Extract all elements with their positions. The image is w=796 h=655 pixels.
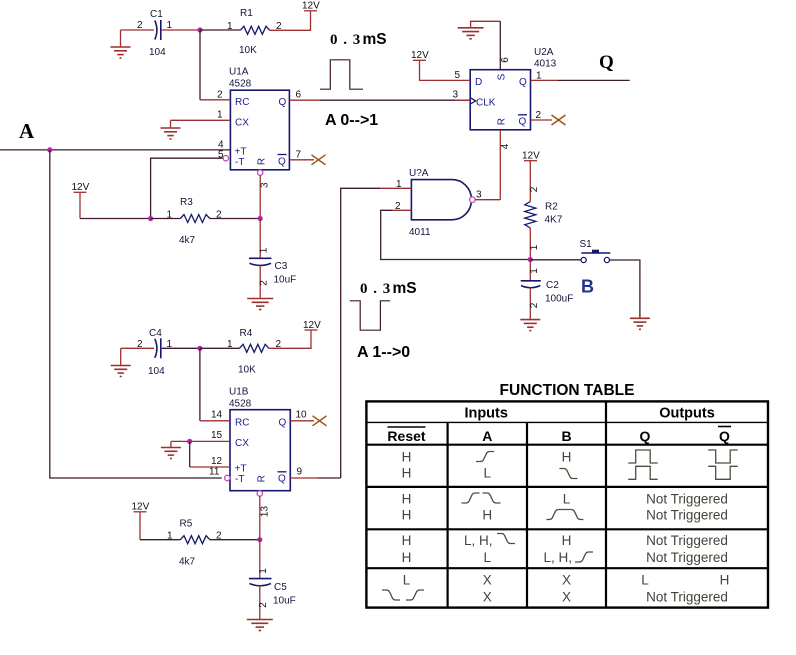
wire <box>189 441 191 467</box>
svg-text:7: 7 <box>296 150 302 161</box>
svg-text:4K7: 4K7 <box>545 215 563 226</box>
wire S1 to ground <box>610 260 640 318</box>
svg-text:X: X <box>562 573 571 588</box>
svg-text:H: H <box>402 550 412 565</box>
pin 13 (R bottom) <box>257 491 270 540</box>
svg-text:6: 6 <box>296 90 302 101</box>
svg-text:1: 1 <box>529 244 540 250</box>
svg-text:Inputs: Inputs <box>464 406 508 422</box>
svg-text:X: X <box>483 573 492 588</box>
resistor R2 4K7 <box>525 186 563 259</box>
svg-text:Q: Q <box>279 418 287 429</box>
node junction C1/R1 <box>197 27 202 32</box>
pin 3 (NAND out) to U2A R <box>475 190 500 201</box>
svg-text:H: H <box>720 573 730 588</box>
svg-text:X: X <box>562 590 571 605</box>
wire net B <box>530 259 581 261</box>
svg-text:Not Triggered: Not Triggered <box>646 491 728 506</box>
ground (U2A S pin 6) <box>458 21 501 39</box>
svg-text:R1: R1 <box>240 8 253 19</box>
svg-text:10: 10 <box>296 410 308 421</box>
svg-text:H: H <box>402 508 412 523</box>
svg-text:1: 1 <box>227 339 233 350</box>
svg-text:10uF: 10uF <box>274 275 297 286</box>
svg-text:H: H <box>402 466 412 481</box>
svg-text:3: 3 <box>476 190 482 201</box>
wire <box>210 218 260 220</box>
svg-text:12V: 12V <box>522 151 540 162</box>
pin 1 (NAND in) <box>380 179 411 190</box>
svg-text:H: H <box>482 508 492 523</box>
pin 2 (Qbar) no-connect <box>531 110 566 125</box>
svg-text:C2: C2 <box>546 280 559 291</box>
svg-text:Q: Q <box>278 157 286 168</box>
capacitor C3 10uF <box>249 219 296 299</box>
svg-text:1: 1 <box>258 568 269 574</box>
svg-text:U1A: U1A <box>229 67 249 78</box>
pin 7 (Qbar) no-connect <box>289 150 325 165</box>
svg-text:Not Triggered: Not Triggered <box>646 508 728 523</box>
svg-text:CX: CX <box>235 438 249 449</box>
wire <box>80 218 151 220</box>
svg-text:5: 5 <box>455 70 461 81</box>
svg-text:11: 11 <box>209 467 220 478</box>
wire Q output <box>558 79 630 81</box>
svg-text:A: A <box>482 428 492 444</box>
table row 4a: L X X L H <box>403 573 730 588</box>
svg-text:H: H <box>402 491 412 506</box>
wire (junction to RC pin 14) <box>199 348 201 421</box>
pin 10 (Q) no-connect <box>290 410 326 426</box>
svg-text:C4: C4 <box>149 328 162 339</box>
power 12V (R4) <box>303 320 321 331</box>
power 12V (R1) <box>302 1 320 12</box>
svg-text:L: L <box>484 550 492 565</box>
svg-text:D: D <box>475 77 482 88</box>
table row 2a: H rise-fall L NotTriggered <box>402 491 728 506</box>
node junction R3.1 / -T <box>148 216 153 221</box>
svg-text:12V: 12V <box>132 502 150 513</box>
waveform pulse A 1->0 <box>350 301 390 330</box>
wire <box>162 347 200 349</box>
svg-text:1: 1 <box>167 531 173 542</box>
power 12V (R3) <box>72 182 90 219</box>
wire <box>269 331 311 349</box>
svg-text:RC: RC <box>235 97 249 108</box>
svg-text:1: 1 <box>259 247 270 253</box>
svg-text:R2: R2 <box>545 202 558 213</box>
svg-text:R: R <box>257 475 268 482</box>
capacitor C2 100uF <box>521 260 574 320</box>
svg-text:2: 2 <box>529 302 540 308</box>
pin 5 (-T) <box>151 150 229 219</box>
svg-text:1: 1 <box>536 71 542 82</box>
table row 3b: H L L,H,rise NotTriggered <box>402 550 728 565</box>
svg-text:12: 12 <box>211 456 223 467</box>
svg-text:0 . 3: 0 . 3 <box>360 281 391 297</box>
svg-text:2: 2 <box>529 186 540 192</box>
svg-text:L: L <box>563 491 571 506</box>
svg-text:+T: +T <box>235 464 247 475</box>
svg-text:Q: Q <box>719 428 730 444</box>
node junction A <box>47 147 52 152</box>
svg-text:Reset: Reset <box>387 428 425 444</box>
pin 12 (+T) <box>190 456 230 467</box>
pin 11 (-T) <box>50 150 230 481</box>
capacitor C1 104 <box>137 9 173 58</box>
table row 2b: H H bump NotTriggered <box>402 508 728 523</box>
table frame <box>366 401 768 607</box>
svg-text:CLK: CLK <box>476 97 496 108</box>
wire (junction to RC pin) <box>199 30 201 100</box>
svg-text:12V: 12V <box>72 182 90 193</box>
node junction CX/+T <box>187 439 192 444</box>
switch S1 <box>580 239 611 263</box>
pin 15 (CX) <box>171 430 230 441</box>
ground (S1) <box>630 318 650 329</box>
svg-text:CX: CX <box>235 118 249 129</box>
svg-text:L: L <box>641 573 649 588</box>
svg-text:100uF: 100uF <box>545 294 573 305</box>
wire <box>162 29 200 31</box>
svg-text:L: L <box>403 573 411 588</box>
node junction C4/R4 <box>197 346 202 351</box>
svg-text:U?A: U?A <box>409 168 429 179</box>
capacitor C5 10uF <box>249 540 296 620</box>
svg-text:10uF: 10uF <box>273 596 296 607</box>
svg-text:mS: mS <box>363 31 387 48</box>
node junction R5/C5/pin13 <box>257 537 262 542</box>
wire <box>140 539 180 541</box>
svg-text:9: 9 <box>297 467 303 478</box>
svg-text:C5: C5 <box>274 582 287 593</box>
resistor R4 10K <box>227 328 282 376</box>
svg-text:R5: R5 <box>180 519 193 530</box>
svg-text:6: 6 <box>500 57 511 63</box>
svg-text:10K: 10K <box>239 45 257 56</box>
svg-text:L: L <box>484 466 492 481</box>
pin 2 (RC) <box>200 90 230 101</box>
pin 1 (Q) <box>531 71 559 82</box>
ground (C1 pin 2) <box>111 30 131 58</box>
svg-text:15: 15 <box>211 430 223 441</box>
IC U2A 4013 <box>470 47 556 130</box>
svg-text:1: 1 <box>529 268 540 274</box>
svg-text:4: 4 <box>500 143 511 149</box>
svg-text:104: 104 <box>149 47 166 58</box>
svg-text:Q: Q <box>279 97 287 108</box>
svg-text:B: B <box>561 428 571 444</box>
svg-text:13: 13 <box>260 506 271 518</box>
svg-text:S1: S1 <box>580 239 593 250</box>
svg-text:Not Triggered: Not Triggered <box>646 550 728 565</box>
svg-text:Q: Q <box>519 77 527 88</box>
ground (CX pin 15) <box>161 441 181 458</box>
svg-text:A 1-->0: A 1-->0 <box>357 344 410 361</box>
IC U1A 4528 <box>229 67 289 170</box>
svg-text:4k7: 4k7 <box>179 235 196 246</box>
svg-text:Q: Q <box>640 428 651 444</box>
node junction R3.2/C3/pin3 <box>258 216 263 221</box>
svg-text:FUNCTION TABLE: FUNCTION TABLE <box>500 382 635 399</box>
svg-text:A: A <box>19 119 35 143</box>
power 12V (U2A D) <box>411 50 470 80</box>
svg-text:4528: 4528 <box>229 399 252 410</box>
svg-text:1: 1 <box>167 210 173 221</box>
svg-text:B: B <box>581 277 594 297</box>
svg-text:0 . 3: 0 . 3 <box>330 32 361 48</box>
power 12V (R5) <box>132 502 150 540</box>
wire <box>499 21 501 69</box>
svg-text:H: H <box>562 533 572 548</box>
ground (C5) <box>247 620 273 631</box>
table row 1b: H L fall pulses <box>402 466 738 481</box>
svg-text:14: 14 <box>211 410 223 421</box>
power 12V (R2) <box>522 151 540 202</box>
svg-text:X: X <box>483 590 492 605</box>
table row 1a: H rise H pulses <box>402 450 738 465</box>
svg-text:L, H,: L, H, <box>464 533 493 548</box>
pin 2 (NAND in) <box>392 201 411 212</box>
svg-text:12V: 12V <box>411 50 429 61</box>
svg-text:C1: C1 <box>150 9 163 20</box>
wire U1B pin9 to NAND pin1 <box>341 188 380 478</box>
wire <box>200 347 240 349</box>
svg-text:1: 1 <box>396 179 402 190</box>
wire <box>151 218 181 220</box>
resistor R3 4k7 <box>167 197 223 246</box>
svg-text:mS: mS <box>393 280 417 297</box>
pin 6 (Q) <box>289 90 320 101</box>
pin 3 (R reset, bottom) <box>258 170 271 219</box>
svg-text:104: 104 <box>148 366 165 377</box>
svg-text:3: 3 <box>453 90 459 101</box>
svg-text:H: H <box>562 450 572 465</box>
svg-text:H: H <box>402 450 412 465</box>
table row 4b: negpulse X X NotTriggered <box>382 590 728 605</box>
pin 1 (CX) <box>171 110 231 121</box>
svg-text:R: R <box>257 158 268 165</box>
svg-text:4011: 4011 <box>409 227 431 238</box>
pin 9 (Qbar) <box>290 467 340 479</box>
svg-text:-T: -T <box>235 474 244 485</box>
node junction B/R2/C2 <box>528 257 533 262</box>
ground (CX pin 1) <box>161 120 181 139</box>
wire <box>121 347 154 349</box>
svg-text:U2A: U2A <box>534 47 554 58</box>
svg-text:2: 2 <box>137 20 143 31</box>
svg-text:4013: 4013 <box>534 59 557 70</box>
wire net A <box>0 149 230 151</box>
wire NAND pin2 to net B <box>381 210 531 259</box>
wire U1A Q to U2A CLK <box>320 99 470 101</box>
pin 14 (RC) <box>200 410 230 421</box>
svg-text:Not Triggered: Not Triggered <box>646 533 728 548</box>
svg-text:Outputs: Outputs <box>659 406 715 422</box>
svg-text:1: 1 <box>217 110 223 121</box>
svg-text:A 0-->1: A 0-->1 <box>325 112 378 129</box>
svg-text:C3: C3 <box>275 261 288 272</box>
pin 3 (CLK) <box>453 90 471 101</box>
svg-text:U1B: U1B <box>229 387 249 398</box>
svg-text:Not Triggered: Not Triggered <box>646 590 728 605</box>
svg-text:5: 5 <box>218 150 224 161</box>
wire <box>270 12 311 31</box>
svg-text:RC: RC <box>235 418 249 429</box>
wire <box>210 539 260 541</box>
wire <box>200 29 240 31</box>
svg-text:Q: Q <box>599 52 614 73</box>
pin 4 (R bottom) <box>500 130 511 200</box>
ground (C2) <box>520 320 540 331</box>
svg-text:+T: +T <box>235 147 247 158</box>
svg-text:2: 2 <box>259 280 270 286</box>
svg-text:R4: R4 <box>240 328 253 339</box>
svg-text:L, H,: L, H, <box>544 550 573 565</box>
svg-text:S: S <box>497 73 508 80</box>
waveform pulse A 0->1 <box>320 60 363 89</box>
svg-text:2: 2 <box>137 339 143 350</box>
svg-text:-T: -T <box>235 157 244 168</box>
capacitor C4 104 <box>137 328 173 377</box>
svg-text:H: H <box>402 533 412 548</box>
ground (C4 pin 2) <box>111 348 131 376</box>
IC U1B 4528 <box>229 387 290 491</box>
svg-text:1: 1 <box>227 21 233 32</box>
svg-text:2: 2 <box>217 90 223 101</box>
svg-text:R3: R3 <box>180 197 193 208</box>
resistor R5 4k7 <box>167 519 222 568</box>
svg-text:2: 2 <box>536 110 542 121</box>
svg-text:R: R <box>497 118 508 125</box>
svg-text:3: 3 <box>260 182 271 188</box>
resistor R1 10K <box>227 8 282 56</box>
NAND gate U?A 4011 <box>409 168 475 238</box>
svg-text:Q: Q <box>519 117 527 128</box>
svg-text:Q: Q <box>278 474 286 485</box>
svg-text:12V: 12V <box>302 1 320 12</box>
svg-text:2: 2 <box>395 201 401 212</box>
ground (C3) <box>247 299 273 310</box>
svg-text:4528: 4528 <box>229 79 252 90</box>
svg-text:2: 2 <box>258 602 269 608</box>
svg-text:4k7: 4k7 <box>179 557 196 568</box>
svg-text:10K: 10K <box>238 365 256 376</box>
wire <box>121 29 155 31</box>
table row 3a: H L,H,fall H NotTriggered <box>402 533 728 548</box>
